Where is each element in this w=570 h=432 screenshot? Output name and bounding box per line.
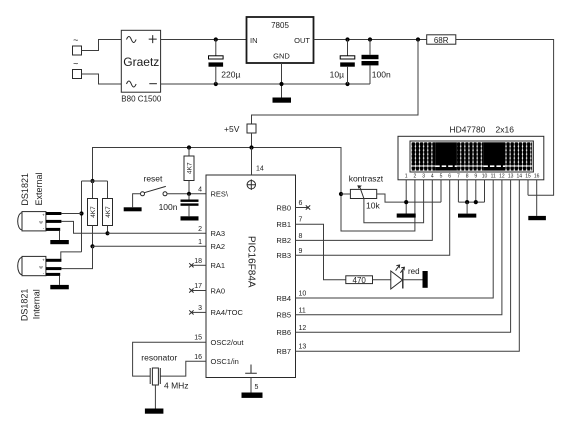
- svg-text:4: 4: [198, 186, 202, 193]
- ground bar under 7805: [273, 98, 292, 103]
- wire external sensor gnd: [59, 231, 61, 240]
- svg-text:RB3: RB3: [276, 251, 291, 260]
- svg-text:16: 16: [534, 174, 540, 180]
- svg-text:13: 13: [299, 344, 307, 351]
- potentiometer P kontraszt 10k: [349, 173, 384, 210]
- svg-text:RB4: RB4: [276, 294, 291, 303]
- LED D red: [391, 265, 420, 289]
- svg-text:18: 18: [194, 258, 202, 265]
- reset switch S1: [133, 174, 206, 208]
- svg-text:100n: 100n: [159, 202, 178, 212]
- wire 4K7 RA2 to node: [92, 226, 94, 247]
- wire bridge - bottom rail: [161, 83, 370, 85]
- wire LED to terminator: [403, 279, 423, 281]
- svg-text:10k: 10k: [366, 201, 380, 211]
- wire 4K7 RA3 to node: [107, 226, 109, 234]
- svg-text:10: 10: [482, 174, 488, 180]
- svg-text:RES\: RES\: [211, 190, 229, 199]
- svg-text:RB2: RB2: [276, 236, 291, 245]
- svg-text:14: 14: [517, 174, 523, 180]
- svg-text:OSC2/out: OSC2/out: [211, 338, 245, 347]
- svg-text:470: 470: [353, 276, 367, 285]
- AC input terminal 2: [73, 59, 82, 79]
- ground bar external sensor: [50, 240, 69, 244]
- svg-text:12: 12: [299, 325, 307, 332]
- wire 470 to LED: [373, 279, 391, 281]
- LCD pin numbers 1-16: [405, 174, 540, 180]
- svg-text:68R: 68R: [434, 36, 449, 45]
- wire LCD pin15 backlight: [527, 180, 529, 196]
- node VDD at external sensor: [79, 211, 83, 215]
- wire LCD data pins 7-10 grounded: [457, 180, 459, 202]
- wire LCD pin11 to RB4: [296, 180, 494, 298]
- LCD dot matrix area: [411, 142, 435, 170]
- svg-text:4K7: 4K7: [105, 206, 112, 218]
- sensor DS1821 External: [18, 172, 69, 244]
- stub RA4 unconnected: [191, 311, 206, 313]
- node 7805 GND on bottom rail: [279, 82, 283, 86]
- svg-text:4K7: 4K7: [90, 206, 97, 218]
- node top rail at 220u: [214, 37, 218, 41]
- node OUT at 100n: [368, 37, 372, 41]
- svg-text:RB1: RB1: [276, 220, 291, 229]
- capacitor C 100n: [362, 40, 391, 85]
- wire 7805 GND pin down: [281, 63, 283, 98]
- stub RA1 unconnected: [191, 264, 206, 266]
- power symbol inside PIC: [247, 181, 255, 189]
- svg-text:reset: reset: [144, 174, 164, 184]
- svg-text:GND: GND: [273, 52, 290, 61]
- wire 7805 OUT to 68R: [314, 39, 427, 41]
- svg-text:OUT: OUT: [294, 36, 310, 45]
- svg-text:RA3: RA3: [211, 229, 226, 238]
- svg-text:16: 16: [194, 354, 202, 361]
- svg-text:kontraszt: kontraszt: [349, 173, 384, 183]
- wire bridge + output to 7805 IN: [161, 39, 247, 41]
- node LCD pin1: [404, 200, 408, 204]
- microcontroller U PIC16F84A: [206, 175, 296, 378]
- svg-text:15: 15: [194, 335, 202, 342]
- svg-text:DS1821: DS1821: [20, 289, 30, 322]
- wire +5V square to rail: [251, 133, 253, 148]
- ground bar LCD pin16: [528, 216, 546, 220]
- node bottom rail at 10u: [345, 82, 349, 86]
- svg-text:RB6: RB6: [276, 328, 291, 337]
- ground bar LCD pin1: [397, 214, 416, 218]
- svg-text:~: ~: [73, 59, 78, 69]
- bridge rectifier B80C1500 "Graetz": [121, 30, 162, 103]
- node +5V at PIC pin14: [249, 145, 253, 149]
- svg-text:RB7: RB7: [276, 347, 291, 356]
- wire DQ internal to RA2 node: [61, 246, 92, 268]
- svg-text:5: 5: [255, 384, 259, 391]
- ground bar reset switch: [124, 207, 142, 211]
- svg-text:RA4/TOC: RA4/TOC: [211, 308, 244, 317]
- svg-text:2x16: 2x16: [496, 124, 515, 134]
- svg-text:External: External: [34, 172, 44, 205]
- svg-text:17: 17: [194, 283, 202, 290]
- +5V rail: [93, 148, 415, 232]
- svg-text:9: 9: [474, 174, 477, 180]
- svg-text:15: 15: [525, 174, 531, 180]
- svg-text:2: 2: [198, 226, 202, 233]
- AC input terminal 1: [73, 35, 82, 55]
- svg-text:100n: 100n: [372, 70, 391, 80]
- wire PIC pin14 supply: [252, 148, 264, 176]
- svg-text:+: +: [42, 213, 45, 218]
- wire LCD pin6 E to RB3: [296, 180, 450, 256]
- svg-text:RB5: RB5: [276, 311, 291, 320]
- wire OSC2 to resonator: [133, 342, 206, 376]
- ground bar internal sensor: [50, 285, 69, 289]
- svg-text:+5V: +5V: [224, 124, 240, 134]
- svg-text:RB0: RB0: [276, 203, 291, 212]
- stub RA0 unconnected: [191, 290, 206, 292]
- wire LCD pin12 to RB5: [296, 180, 502, 315]
- node DQ external RA3: [105, 231, 109, 235]
- wire LCD pin13 to RB6: [296, 180, 511, 332]
- svg-text:4K7: 4K7: [186, 162, 193, 174]
- wire LCD pin5 RW vertical: [440, 180, 442, 202]
- wire VDD sensors vertical: [81, 214, 83, 252]
- svg-text:resonator: resonator: [141, 353, 177, 363]
- node reset/RES pin: [187, 192, 191, 196]
- svg-text:6: 6: [299, 200, 303, 207]
- svg-text:PIC16F84A: PIC16F84A: [246, 236, 257, 288]
- svg-text:red: red: [408, 267, 420, 276]
- svg-text:4: 4: [431, 174, 434, 180]
- svg-text:B80 C1500: B80 C1500: [121, 94, 162, 103]
- svg-text:14: 14: [256, 166, 264, 173]
- svg-text:4 MHz: 4 MHz: [164, 380, 189, 390]
- resistor R 4K7 pullup RA3: [103, 199, 113, 226]
- wire pot left terminal: [341, 193, 350, 195]
- svg-text:10: 10: [299, 291, 307, 298]
- svg-text:IN: IN: [250, 36, 258, 45]
- node sensor pullup branch: [90, 179, 94, 183]
- capacitor C 10u polarized: [330, 40, 355, 85]
- svg-text:11: 11: [491, 174, 496, 180]
- wire OSC1 to resonator: [160, 361, 206, 376]
- svg-text:1: 1: [405, 174, 408, 180]
- svg-text:7805: 7805: [271, 21, 289, 30]
- LCD module HD47780 2x16: [398, 124, 544, 180]
- wire internal sensor gnd: [59, 276, 61, 285]
- wire +5V branch down-left: [252, 40, 419, 125]
- sensor DS1821 Internal: [18, 256, 69, 321]
- svg-text:13: 13: [508, 174, 514, 180]
- wire AC2 to bridge: [82, 74, 122, 84]
- wire DQ external to RA3 node: [61, 221, 105, 233]
- svg-text:Internal: Internal: [32, 289, 42, 319]
- resonator X1 4MHz: [141, 353, 188, 409]
- voltage regulator U 7805: [247, 17, 314, 63]
- svg-text:+: +: [42, 257, 45, 262]
- svg-text:OSC1/in: OSC1/in: [211, 357, 239, 366]
- wire VDD external pin: [61, 213, 81, 215]
- ground bar LCD data pins: [458, 214, 476, 218]
- svg-text:12: 12: [499, 174, 505, 180]
- svg-text:2: 2: [414, 174, 417, 180]
- node LCD pin9: [474, 200, 478, 204]
- wire LCD pin14 to RB7: [296, 180, 520, 351]
- wire AC1 to bridge: [82, 40, 122, 51]
- svg-text:10µ: 10µ: [330, 70, 344, 80]
- wire RB1 to LED resistor: [296, 224, 346, 280]
- node pot left on +5V line: [339, 192, 343, 196]
- node OUT at +5V branch: [416, 37, 420, 41]
- svg-text:7: 7: [457, 174, 460, 180]
- ground bar resonator: [145, 409, 164, 414]
- svg-text:9: 9: [299, 248, 303, 255]
- svg-text:5: 5: [440, 174, 443, 180]
- svg-text:HD47780: HD47780: [450, 124, 486, 134]
- stub RB0 unconnected: [296, 207, 308, 209]
- terminator bar LED cathode: [423, 271, 428, 288]
- wire LCD pin16 to ground: [536, 180, 538, 216]
- +5V terminal square: [224, 124, 256, 134]
- LCD solid block 1: [435, 142, 457, 170]
- resistor 68R: [427, 35, 456, 45]
- ground bar PIC pin5: [242, 393, 263, 398]
- node +5V at reset pullup: [187, 145, 191, 149]
- ground bar 100n: [181, 216, 199, 220]
- svg-text:RA2: RA2: [211, 242, 226, 251]
- svg-text:6: 6: [448, 174, 451, 180]
- svg-text:8: 8: [466, 174, 469, 180]
- node LCD pin8: [465, 200, 469, 204]
- ground symbol inside PIC: [245, 365, 257, 374]
- wire PIC pin5 to ground: [251, 378, 259, 393]
- LCD solid block 2: [483, 142, 505, 170]
- svg-text:RA0: RA0: [211, 286, 226, 295]
- node bottom rail at 220u: [214, 82, 218, 86]
- capacitor C 100n reset: [159, 194, 199, 217]
- resistor R 4K7 pullup RA2: [88, 199, 98, 226]
- wire pullup branch tees: [82, 180, 108, 182]
- svg-text:7: 7: [299, 217, 303, 224]
- resistor R 470: [346, 276, 373, 285]
- resistor R 4K7 reset pullup: [184, 148, 194, 194]
- wire pot wiper to LCD pin3: [364, 180, 424, 223]
- wire RA2 to PIC pin1: [93, 245, 207, 247]
- wire pot right terminal to LCD pin1 rail: [377, 194, 441, 202]
- wire LCD pin4 RS to RB2: [296, 180, 433, 241]
- svg-text:3: 3: [422, 174, 425, 180]
- wire VDD to internal sensor: [61, 252, 82, 260]
- svg-text:DS1821: DS1821: [20, 173, 30, 206]
- svg-text:RA1: RA1: [211, 261, 226, 270]
- svg-text:11: 11: [299, 307, 306, 314]
- wire 68R to LCD backlight: [456, 40, 554, 196]
- svg-text:Graetz: Graetz: [123, 55, 159, 69]
- wire RA3 to PIC pin2: [108, 232, 207, 234]
- capacitor C 220u polarized: [209, 40, 241, 85]
- node OUT at 10u: [345, 37, 349, 41]
- svg-text:~: ~: [73, 35, 78, 45]
- node DQ internal RA2: [90, 244, 94, 248]
- svg-text:8: 8: [299, 233, 303, 240]
- svg-text:220µ: 220µ: [221, 70, 240, 80]
- svg-text:3: 3: [198, 305, 202, 312]
- svg-text:1: 1: [198, 239, 202, 246]
- wire LCD pin1 VSS to ground: [405, 180, 407, 214]
